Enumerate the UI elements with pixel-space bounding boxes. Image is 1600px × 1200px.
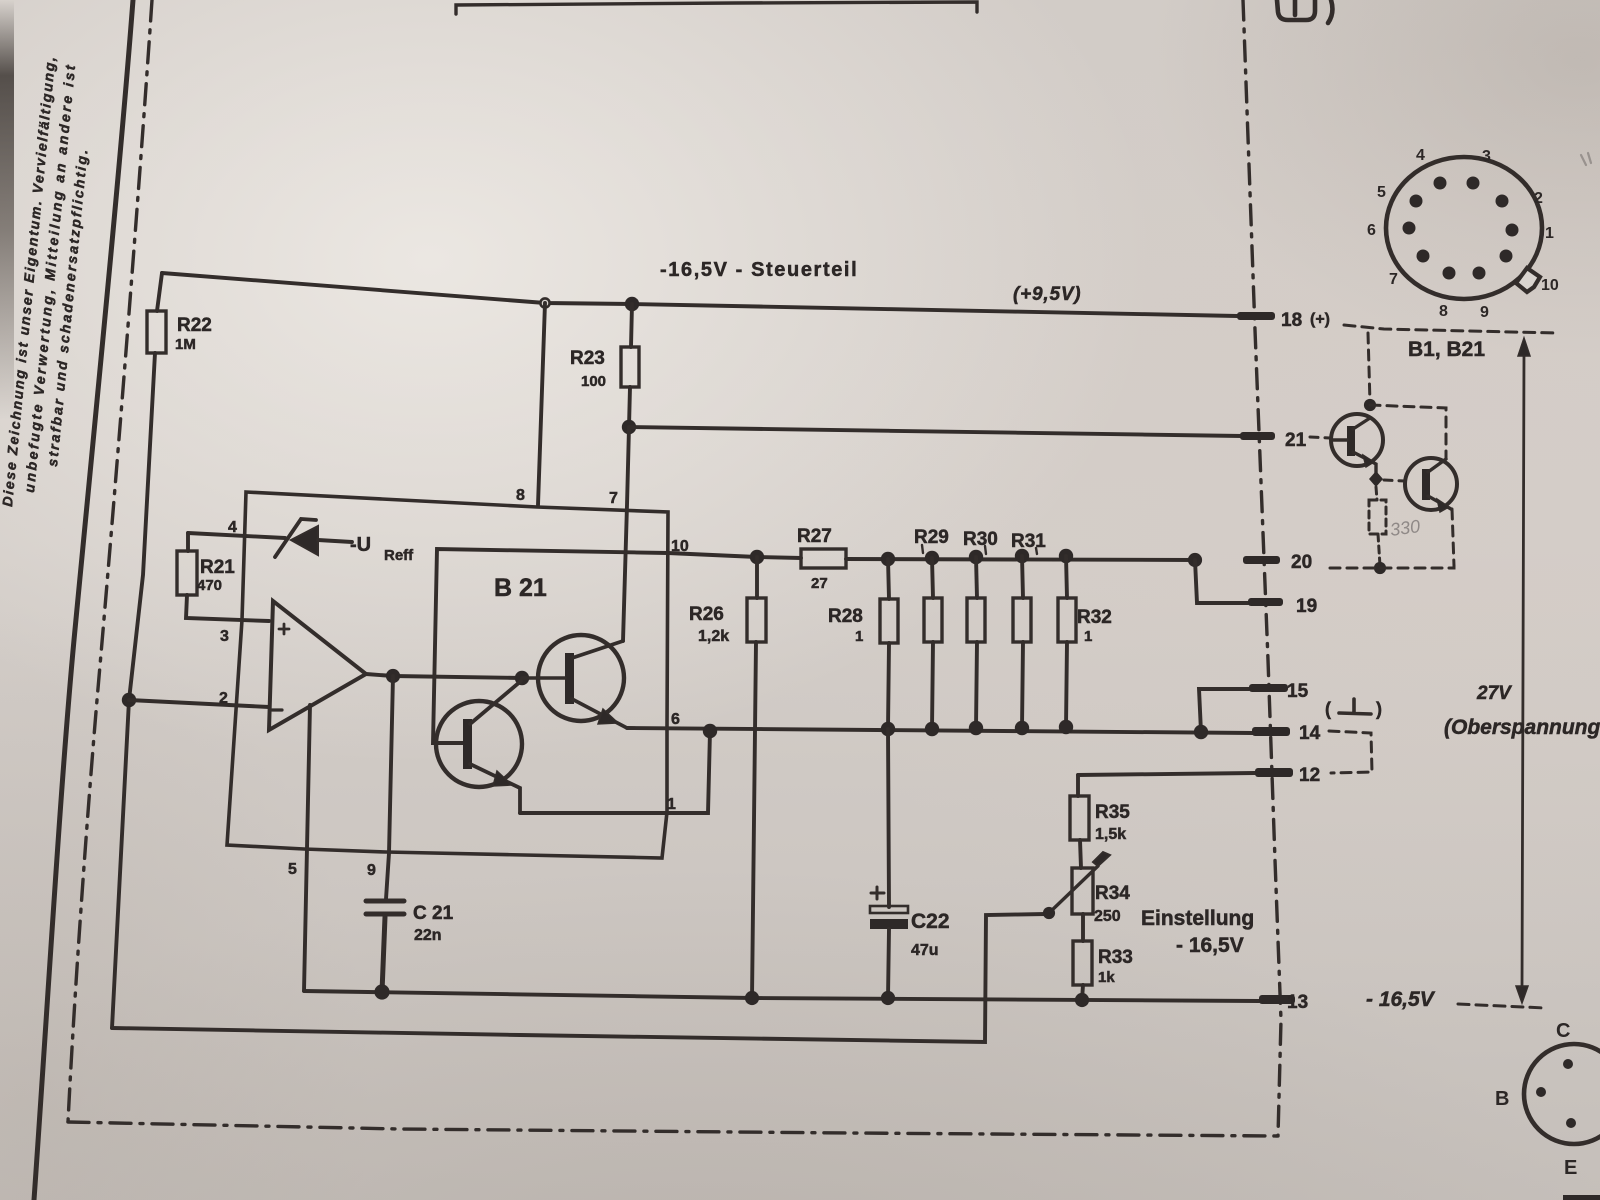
- svg-text:6: 6: [1367, 222, 1376, 239]
- svg-text:R27: R27: [797, 526, 832, 547]
- resistor 330 (dashed): [1369, 487, 1386, 566]
- label 20: [1291, 552, 1312, 573]
- node: junction dot T1 emitter: [1369, 471, 1383, 487]
- node: junction dot pin15 drop: [1194, 725, 1208, 739]
- label pin 7: [609, 490, 618, 507]
- margin text line 2: [21, 62, 78, 493]
- border frame dash-dot left line: [68, 0, 152, 1122]
- svg-text:R34: R34: [1095, 883, 1130, 904]
- dashed drop to T1 collector: [1368, 333, 1370, 403]
- svg-text:20: 20: [1291, 552, 1312, 573]
- svg-text:- 16,5V: - 16,5V: [1366, 988, 1436, 1011]
- node: junction dot C22 bottom: [881, 991, 895, 1005]
- svg-text:7: 7: [609, 490, 618, 507]
- wire: pin 4 stub to zener: [188, 533, 285, 538]
- label 330 pencil: [1389, 516, 1422, 540]
- zener diode VRef: [275, 519, 352, 557]
- svg-text:19: 19: [1296, 596, 1317, 617]
- title block bottom edge (cut off at top): [456, 2, 977, 14]
- label pin 3: [220, 628, 229, 645]
- label pin 5: [288, 861, 297, 878]
- label 14: [1299, 723, 1321, 744]
- svg-text:9: 9: [1480, 304, 1489, 321]
- svg-text:-U: -U: [350, 534, 371, 556]
- paper edge shadow: [0, 0, 14, 420]
- node: junction dot R32 top: [1059, 549, 1073, 563]
- node: junction dot C21 bottom: [374, 984, 389, 999]
- svg-text:47u: 47u: [911, 942, 939, 959]
- label C22 47u: [911, 910, 950, 959]
- label 27V (Oberspannung): [1444, 683, 1600, 739]
- svg-text:1: 1: [667, 796, 676, 813]
- label (+9,5V): [1013, 284, 1081, 305]
- node: junction dot op-amp output: [386, 669, 400, 683]
- svg-text:1M: 1M: [175, 336, 196, 353]
- svg-text:3: 3: [220, 628, 229, 645]
- wire: pin 10 internal L to Q2 base: [433, 549, 757, 743]
- dashed elbow pin14 pin12: [1329, 731, 1372, 773]
- node: junction dot T1 collector: [1364, 399, 1376, 411]
- transistor Q1 (upper, in B21): [522, 635, 627, 728]
- transistor T1 (B1): [1331, 414, 1383, 479]
- svg-text:9: 9: [367, 862, 376, 879]
- pinout dots CBE: [1536, 1059, 1576, 1128]
- svg-text:4: 4: [1416, 147, 1425, 164]
- svg-text:1: 1: [1545, 225, 1554, 242]
- svg-text:10: 10: [1541, 277, 1559, 294]
- svg-text:(: (: [1325, 699, 1331, 719]
- node: junction dot R33 bottom: [1075, 993, 1089, 1007]
- svg-text:470: 470: [197, 577, 222, 594]
- label Einstellung -16,5V: [1141, 907, 1254, 957]
- label R23 100: [570, 348, 606, 390]
- svg-text:R35: R35: [1095, 802, 1130, 823]
- svg-text:2: 2: [219, 690, 228, 707]
- svg-text:330: 330: [1389, 516, 1422, 540]
- node: junction dot R31 top: [1015, 549, 1029, 563]
- svg-text:- 16,5V: - 16,5V: [1176, 934, 1244, 957]
- svg-text:1: 1: [1084, 628, 1092, 645]
- svg-text:5: 5: [288, 861, 297, 878]
- node: junction dot R26 top: [750, 550, 764, 564]
- node: open junction circle at pin8 drop: [540, 298, 549, 307]
- labels C B E: [1495, 1020, 1577, 1179]
- svg-text:E: E: [1564, 1157, 1577, 1179]
- svg-text:C: C: [1556, 1020, 1570, 1042]
- margin text line 1: [0, 54, 58, 507]
- svg-text:5: 5: [1377, 184, 1386, 201]
- pin bar 19: [1248, 598, 1283, 606]
- label 21: [1285, 430, 1307, 451]
- svg-text:(+9,5V): (+9,5V): [1013, 284, 1081, 305]
- dashed T2 emitter down: [1452, 509, 1454, 566]
- node: junction dot R30 top: [969, 550, 983, 564]
- svg-text:3: 3: [1482, 148, 1491, 165]
- wire: -16.5V bottom rail: [304, 991, 1259, 1001]
- label pin 6: [671, 711, 680, 728]
- wire: pin 6 line from Q1 emitter: [627, 728, 1253, 733]
- wire: pin 9 drop from op-amp output: [386, 676, 393, 899]
- svg-text:R21: R21: [200, 557, 235, 578]
- svg-text:C 21: C 21: [413, 903, 454, 924]
- label 18 (+): [1281, 310, 1330, 331]
- svg-text:B 21: B 21: [494, 574, 547, 602]
- wire: +9.5V top rail from R22 to pin 18: [162, 273, 1237, 316]
- label R21 470: [197, 557, 235, 594]
- svg-text:R28: R28: [828, 606, 863, 627]
- svg-text:7: 7: [1389, 271, 1398, 288]
- resistor R23: [621, 304, 639, 427]
- svg-text:(Oberspannung: (Oberspannung: [1444, 716, 1600, 739]
- svg-text:1k: 1k: [1098, 969, 1115, 986]
- svg-text:B1, B21: B1, B21: [1408, 338, 1485, 361]
- op-amp U1: [269, 601, 366, 730]
- label 12: [1299, 765, 1320, 786]
- svg-text:2: 2: [1534, 190, 1543, 207]
- border frame dash-dot bottom line: [68, 1122, 1278, 1136]
- resistor R26: [747, 557, 766, 998]
- label R33 1k: [1098, 947, 1133, 986]
- svg-text:R29: R29: [914, 527, 949, 548]
- wire: feedback line bottom to R34 wiper: [112, 914, 1046, 1042]
- svg-text:(+): (+): [1310, 311, 1330, 328]
- dashed line +9.5V to B1 box: [1344, 325, 1556, 333]
- label R32 1: [1077, 607, 1112, 645]
- label R27 27: [797, 526, 832, 592]
- label 13: [1287, 992, 1308, 1013]
- label pin 4: [228, 519, 237, 536]
- wire: pin 5 drop from op-amp: [304, 705, 310, 991]
- svg-text:R30: R30: [963, 529, 998, 550]
- pin bar 18: [1237, 312, 1275, 320]
- label B1, B21: [1408, 338, 1485, 361]
- capacitor C21: [366, 901, 404, 992]
- node: junction dot upper transistor base: [515, 671, 529, 685]
- svg-text:100: 100: [581, 373, 606, 390]
- label 15: [1287, 681, 1309, 702]
- resistor R28: [880, 559, 898, 729]
- svg-text:250: 250: [1094, 908, 1121, 925]
- svg-text:27V: 27V: [1476, 683, 1512, 704]
- pencil mark right of connector: [1581, 153, 1591, 165]
- label pin 2: [219, 690, 228, 707]
- svg-text:14: 14: [1299, 723, 1321, 744]
- svg-text:R32: R32: [1077, 607, 1112, 628]
- 27V measurement arrow: [1516, 338, 1530, 1003]
- node: junction dot R23 bottom: [622, 420, 636, 434]
- node: junction dots resistor bank bottoms: [881, 720, 1073, 736]
- svg-text:1,2k: 1,2k: [698, 628, 729, 645]
- pin bar 14: [1252, 727, 1290, 736]
- connector pin numbers: [1367, 147, 1559, 321]
- label pin 8: [516, 487, 525, 504]
- border frame dash-dot right line: [1243, 0, 1281, 1136]
- resistor R32: [1058, 556, 1076, 727]
- resistor R22: [129, 273, 166, 700]
- svg-text:6: 6: [671, 711, 680, 728]
- dashed line -16.5V: [1458, 1004, 1545, 1008]
- svg-text:C22: C22: [911, 910, 950, 933]
- node: junction dot R34 wiper: [1043, 907, 1055, 919]
- svg-text:18: 18: [1281, 310, 1302, 331]
- resistor R33: [1073, 941, 1092, 1000]
- svg-text:B: B: [1495, 1088, 1509, 1110]
- wire: pin 12 line: [1078, 773, 1255, 775]
- wire: pin 2 line to op-amp inverting input: [129, 700, 269, 707]
- connector pin dots: [1403, 177, 1519, 280]
- dashes pin 21 to T1 base: [1310, 437, 1330, 438]
- svg-text:): ): [1376, 699, 1382, 719]
- svg-text:8: 8: [1439, 303, 1448, 320]
- label pin 9: [367, 862, 376, 879]
- svg-text:12: 12: [1299, 765, 1320, 786]
- label -URef: [350, 534, 414, 564]
- border frame solid left line: [34, 0, 133, 1200]
- dashed link T1 collector to T2 collector: [1370, 405, 1446, 458]
- potentiometer R34: [1049, 852, 1110, 941]
- node: junction dot 330 bottom: [1374, 562, 1386, 574]
- transistor pinout circle CBE: [1524, 1044, 1600, 1144]
- resistor R29: [924, 558, 942, 729]
- svg-text:R26: R26: [689, 604, 724, 625]
- connector socket circle: [1386, 157, 1542, 299]
- dashes T1 emitter to T2 base: [1384, 480, 1405, 481]
- transistor Q2 (lower, in B21): [436, 681, 522, 813]
- label B 21: [494, 574, 547, 602]
- pin bar 12: [1255, 768, 1293, 777]
- title -16,5V - Steuerteil: [660, 259, 858, 281]
- label R26 1,2k: [689, 604, 729, 645]
- label R34 250: [1094, 883, 1130, 925]
- dashed pin20 to 330 node to T2 emitter: [1330, 566, 1454, 568]
- label R35 1,5k: [1095, 802, 1130, 843]
- resistor R31: [1013, 556, 1031, 728]
- node: junction dot pin6/pin1: [703, 724, 717, 738]
- capacitor C22 (electrolytic): [870, 729, 908, 998]
- svg-text:27: 27: [811, 575, 828, 592]
- svg-text:13: 13: [1287, 992, 1308, 1013]
- resistor R35: [1070, 775, 1089, 868]
- label R29: [914, 527, 949, 553]
- label C21 22n: [413, 903, 454, 944]
- label R31: [1011, 531, 1046, 554]
- label 19: [1296, 596, 1317, 617]
- svg-text:R31: R31: [1011, 531, 1046, 552]
- label R22 1M: [175, 315, 212, 353]
- svg-text:Einstellung: Einstellung: [1141, 907, 1254, 930]
- svg-text:1: 1: [855, 628, 863, 645]
- wire: Q2 emitter to pin1 to pin6 node: [520, 731, 710, 813]
- svg-text:R33: R33: [1098, 947, 1133, 968]
- svg-text:8: 8: [516, 487, 525, 504]
- label pin 10: [671, 538, 689, 555]
- svg-text:-16,5V - Steuerteil: -16,5V - Steuerteil: [660, 259, 858, 281]
- svg-text:21: 21: [1285, 430, 1307, 451]
- IC box B21: [227, 492, 668, 858]
- wire: pin 19 elbow: [1195, 560, 1248, 603]
- pin bar 20: [1243, 556, 1280, 564]
- node: junction dot R26 bottom: [745, 991, 759, 1005]
- wire: pin 8 drop into box: [538, 303, 545, 505]
- wire: op-amp output: [366, 674, 522, 678]
- svg-text:Reff: Reff: [384, 547, 414, 564]
- ground symbol in parens: [1325, 699, 1382, 719]
- resistor R27 (horizontal): [801, 549, 846, 568]
- svg-text:1,5k: 1,5k: [1095, 826, 1126, 843]
- resistor R30: [967, 557, 985, 728]
- node: junction dot pin 2: [122, 693, 136, 707]
- node: junction dot at R23 top: [625, 297, 639, 311]
- pin bar 13: [1259, 995, 1295, 1004]
- wire: pin 7 drop to Q1 collector: [623, 427, 629, 641]
- wire: pin 21 line: [629, 427, 1242, 436]
- label pin 1: [667, 796, 676, 813]
- pin bar 15: [1249, 684, 1288, 692]
- wire: left rail down from pin2 node: [112, 700, 129, 1028]
- node: junction dot pin19/20: [1188, 553, 1202, 567]
- connector fragment (cut off at top edge): [1277, 0, 1332, 23]
- svg-text:4: 4: [228, 519, 237, 536]
- svg-text:22n: 22n: [414, 927, 442, 944]
- margin text line 3: [44, 147, 91, 467]
- wire: pin 15 elbow: [1199, 689, 1249, 732]
- node: junction dot R28 top: [881, 552, 895, 566]
- label R28 1: [828, 606, 863, 645]
- svg-text:15: 15: [1287, 681, 1309, 702]
- transistor T2 (B21): [1405, 458, 1457, 512]
- wire: pin 10 rail to pin 20: [757, 557, 1195, 560]
- resistor R21: [177, 533, 269, 621]
- svg-text:R23: R23: [570, 348, 605, 369]
- svg-text:R22: R22: [177, 315, 212, 336]
- partial mark bottom edge: [1563, 1195, 1600, 1200]
- pin bar 21: [1240, 432, 1275, 440]
- node: junction dot R29 top: [925, 551, 939, 565]
- label R30: [963, 529, 998, 554]
- label -16,5V at pin13: [1366, 988, 1436, 1011]
